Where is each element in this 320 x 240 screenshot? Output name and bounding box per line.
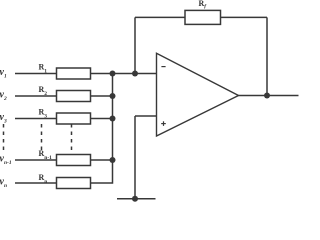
wire noninverting to ground xyxy=(134,116,136,199)
wire vn-1 to Rn-1 xyxy=(15,159,57,161)
continuation dashes xyxy=(4,124,72,151)
node R3 junction xyxy=(110,116,116,122)
resistor Rf xyxy=(185,0,221,24)
wire Rn to bus corner xyxy=(91,160,113,183)
resistor R3 xyxy=(39,108,91,125)
wire feedback down to output xyxy=(266,17,268,95)
wire feedback tap up xyxy=(134,17,136,73)
wire R2 to bus xyxy=(91,95,113,97)
svg-text:R3: R3 xyxy=(39,108,48,120)
summing bus wire xyxy=(112,74,114,161)
svg-text:R1: R1 xyxy=(39,63,48,75)
op-amp U1 xyxy=(157,53,239,136)
wire R1 to bus xyxy=(91,73,113,75)
wire bus to inverting input xyxy=(113,73,157,75)
svg-text:Rf: Rf xyxy=(199,0,208,10)
wire v3 to R3 xyxy=(15,118,57,120)
node ground junction xyxy=(132,196,138,202)
svg-text:v1: v1 xyxy=(0,67,7,80)
resistor Rn xyxy=(39,173,91,189)
node inverting input xyxy=(132,71,138,77)
svg-text:Rn-1: Rn-1 xyxy=(39,149,53,161)
wire feedback top left xyxy=(135,16,185,18)
node R2 junction xyxy=(110,93,116,99)
resistor R2 xyxy=(39,85,91,102)
wire v1 to R1 xyxy=(15,73,57,75)
inverting pin minus marker xyxy=(161,66,165,68)
node output xyxy=(264,93,270,99)
wire R3 to bus xyxy=(91,118,113,120)
wire v2 to R2 xyxy=(15,95,57,97)
resistor Rn-1 xyxy=(39,149,91,166)
svg-text:R2: R2 xyxy=(39,85,48,97)
noninverting pin plus marker xyxy=(161,121,166,126)
wire output xyxy=(239,95,299,97)
resistor R1 xyxy=(39,63,91,80)
wire noninverting input xyxy=(135,115,157,117)
svg-text:vn: vn xyxy=(0,176,7,189)
svg-text:vn-1: vn-1 xyxy=(0,153,12,166)
node R1 junction xyxy=(110,71,116,77)
wire vn to Rn xyxy=(15,182,57,184)
wire Rn-1 to bus xyxy=(91,159,113,161)
svg-text:v2: v2 xyxy=(0,89,7,102)
svg-text:v3: v3 xyxy=(0,112,7,125)
ground xyxy=(117,198,156,200)
wire feedback top right xyxy=(221,16,268,18)
node Rn-1 junction xyxy=(110,157,116,163)
